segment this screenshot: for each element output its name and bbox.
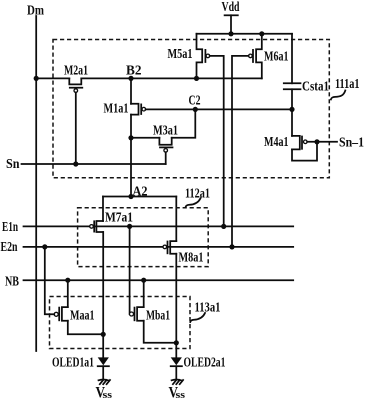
- transistor M6a1 gate bubble: [249, 54, 253, 58]
- transistor M7a1 gate bubble: [90, 225, 94, 229]
- transistor M4a1 gate bar: [301, 137, 303, 149]
- svg-text:Vdd: Vdd: [222, 0, 240, 15]
- wire M4a1 drain from C2: [291, 109, 293, 135]
- svg-text:M4a1: M4a1: [264, 135, 289, 150]
- svg-text:M6a1: M6a1: [264, 50, 289, 65]
- transistor M7a1 gate bar: [93, 221, 95, 231]
- svg-text:ss: ss: [176, 389, 186, 399]
- transistor M4a1 (source-drain staple): [292, 136, 300, 150]
- leader line for 113a1: [190, 313, 205, 322]
- wire top rail (M5a1/M6a1 drains to Csta1): [197, 33, 293, 35]
- diode OLED2a1 triangle: [171, 357, 182, 365]
- junction dot Maa1 source on OLED1 line: [101, 332, 106, 337]
- svg-text:Mba1: Mba1: [146, 309, 170, 324]
- transistor M3a1 gate bubble: [164, 149, 168, 153]
- wire M3a1 source to C2: [172, 109, 196, 137]
- svg-text:Sn–1: Sn–1: [339, 136, 364, 151]
- diode OLED2a1 cathode bar: [171, 365, 182, 367]
- svg-text:113a1: 113a1: [195, 301, 221, 316]
- wire Maa1 gate to E2n: [45, 247, 54, 314]
- svg-text:M8a1: M8a1: [179, 251, 204, 266]
- junction dot E2n to M6a1 gate: [229, 244, 234, 249]
- wire M4a1 source tie (diode connection): [292, 142, 317, 161]
- svg-text:M3a1: M3a1: [153, 124, 178, 139]
- svg-text:OLED2a1: OLED2a1: [184, 356, 226, 371]
- svg-text:M7a1: M7a1: [105, 211, 133, 226]
- leader line for 112a1: [186, 198, 201, 206]
- junction dot C2/M3a1 branch: [193, 107, 198, 112]
- junction dot Csta1/M4a1 on C2: [289, 107, 294, 112]
- svg-text:112a1: 112a1: [185, 187, 210, 202]
- wire Mba1 gate to E1n: [129, 226, 131, 314]
- svg-text:Maa1: Maa1: [70, 309, 95, 324]
- transistor M3a1 gate bar: [160, 146, 173, 148]
- transistor M1a1 gate bar: [140, 104, 142, 114]
- transistor M5a1 gate bar: [204, 50, 206, 62]
- wire M4a1 gate to Sn-1: [307, 141, 337, 143]
- transistor M1a1 (source-drain staple): [131, 104, 139, 115]
- dashed box 111a1: [53, 40, 329, 178]
- junction dot E2n to Maa1 gate: [42, 244, 47, 249]
- wire E1n control line: [24, 225, 294, 227]
- junction dot Dm/M2a1: [34, 76, 39, 81]
- svg-text:M5a1: M5a1: [168, 47, 193, 62]
- transistor Mba1 gate bubble: [130, 312, 134, 316]
- transistor Mba1 gate bar: [134, 308, 136, 321]
- transistor M5a1 gate bubble: [206, 54, 210, 58]
- transistor M8a1 gate bar: [167, 242, 169, 254]
- junction dot M6a1 drain on top rail: [259, 31, 264, 36]
- wire Vdd stem: [230, 15, 232, 34]
- transistor M2a1 gate bubble: [74, 89, 78, 93]
- wire Mba1 drain from NB: [143, 280, 145, 307]
- svg-text:E1n: E1n: [2, 220, 18, 235]
- junction dot Vdd on top rail: [228, 31, 233, 36]
- wire B2 rail (Dm to M6a1 source): [36, 77, 69, 79]
- wire M8a1 source down to OLED2a1: [175, 254, 177, 358]
- power Vdd bar symbol: [225, 14, 238, 16]
- junction dot E1n to Mba1 gate: [127, 224, 132, 229]
- junction dot M2a1 gate on Sn: [73, 161, 78, 166]
- capacitor Csta1 stem from top rail: [291, 34, 293, 84]
- ground Vss symbol (left): [99, 379, 111, 384]
- svg-text:Sn: Sn: [6, 157, 20, 172]
- wire A2 box left edge down to M7a1: [102, 197, 104, 222]
- junction dot A2: [128, 194, 133, 199]
- wire M1a1 source down to M3a1 junction: [130, 115, 132, 197]
- transistor M3a1 (source-drain staple): [159, 138, 171, 145]
- wire NB line: [24, 279, 294, 281]
- wire C2 line (M1a1 gate to Csta1): [146, 108, 292, 110]
- ground Vss symbol (right): [172, 379, 184, 384]
- transistor M6a1 gate bar: [252, 50, 254, 62]
- svg-text:OLED1a1: OLED1a1: [52, 356, 94, 371]
- junction dot Mba1 source on OLED2 line: [174, 340, 179, 345]
- wire M5a1 gate to E1n: [210, 56, 224, 227]
- wire A2 box right edge down to M8a1: [175, 197, 177, 242]
- wire Mba1 source to OLED2 line: [144, 321, 177, 343]
- junction dot M4a1 gate/source tie: [314, 139, 319, 144]
- svg-text:Csta1: Csta1: [302, 80, 329, 95]
- svg-text:ss: ss: [103, 389, 113, 399]
- transistor M8a1 gate bubble: [163, 245, 167, 249]
- transistor Maa1 gate bubble: [54, 312, 58, 316]
- junction dot M3a1 drain: [128, 135, 133, 140]
- svg-text:M1a1: M1a1: [104, 102, 129, 117]
- wire Maa1 drain from NB: [67, 280, 69, 307]
- leader line for 111a1: [331, 91, 345, 100]
- transistor M1a1 gate bubble: [142, 107, 146, 111]
- wire M3a1 drain stub: [131, 137, 159, 139]
- wire M6a1 gate to E2n: [232, 56, 249, 247]
- dashed box 112a1: [78, 208, 209, 267]
- wire Sn scan line: [22, 163, 166, 165]
- wire B2 down to M1a1: [130, 78, 132, 103]
- junction dot B2 node: [128, 76, 133, 81]
- svg-text:NB: NB: [5, 275, 19, 290]
- diode OLED1a1 cathode bar: [98, 365, 109, 367]
- junction dot M5a1 source on B2 rail: [194, 76, 199, 81]
- diode OLED1a1 triangle: [98, 357, 109, 365]
- transistor M2a1 gate bar: [70, 87, 83, 89]
- junction dot NB to Mba1 drain: [141, 278, 146, 283]
- transistor Maa1 gate bar: [58, 308, 60, 321]
- capacitor Csta1 top plate: [284, 82, 301, 84]
- svg-text:111a1: 111a1: [335, 77, 360, 92]
- wire M7a1 source down to OLED1a1: [102, 232, 104, 358]
- wire A2 box top edge: [103, 196, 176, 198]
- transistor M6a1 (source-drain staple): [256, 34, 262, 79]
- transistor M5a1 (source-drain staple): [197, 34, 203, 79]
- wire OLED1a1 to Vss: [102, 366, 104, 380]
- transistor Mba1 (source-drain staple): [137, 307, 144, 321]
- wire E2n control line: [24, 246, 294, 248]
- wire OLED2a1 to Vss: [175, 366, 177, 380]
- svg-text:B2: B2: [126, 64, 142, 79]
- svg-text:E2n: E2n: [1, 240, 18, 255]
- svg-text:M2a1: M2a1: [64, 64, 88, 79]
- capacitor Csta1 bottom plate: [284, 88, 301, 90]
- junction dot NB to Maa1 drain: [65, 278, 70, 283]
- transistor M7a1 (source-drain staple): [96, 221, 103, 232]
- wire Csta1 bottom to C2 line: [291, 89, 293, 109]
- transistor M4a1 gate bubble: [304, 140, 308, 144]
- wire Maa1 source to OLED1 line: [68, 321, 103, 335]
- dashed box 113a1: [50, 297, 191, 349]
- wire Dm vertical data line: [35, 16, 37, 351]
- wire M2a1 gate to Sn: [75, 92, 77, 164]
- transistor Maa1 (source-drain staple): [62, 307, 68, 321]
- svg-text:C2: C2: [189, 94, 201, 109]
- transistor M2a1 (source-drain staple): [69, 78, 81, 84]
- junction dot E1n to M5a1 gate: [221, 224, 226, 229]
- wire M3a1 gate to Sn: [165, 152, 167, 164]
- transistor M8a1 (source-drain staple): [170, 241, 176, 254]
